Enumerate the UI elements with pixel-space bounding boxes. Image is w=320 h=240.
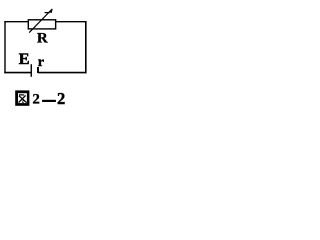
svg-text:R: R xyxy=(37,30,48,46)
svg-text:2: 2 xyxy=(32,91,40,107)
svg-text:r: r xyxy=(38,55,44,70)
wire bottom-left segment xyxy=(4,72,31,74)
svg-text:E: E xyxy=(19,50,30,68)
caption glyph 图 (drawn) xyxy=(15,90,29,105)
wire left side xyxy=(4,21,6,73)
battery E long plate xyxy=(30,64,32,77)
svg-text:2: 2 xyxy=(57,89,65,108)
resistor R box (rheostat body) xyxy=(28,20,55,29)
wire top-right segment xyxy=(55,21,86,23)
caption dash xyxy=(42,100,56,102)
wire right side xyxy=(85,21,87,73)
battery E short plate xyxy=(37,67,39,73)
wire bottom-right segment xyxy=(38,72,86,74)
rheostat arrow (diagonal with arrowhead) xyxy=(29,9,53,33)
wire top-left segment xyxy=(4,21,29,23)
